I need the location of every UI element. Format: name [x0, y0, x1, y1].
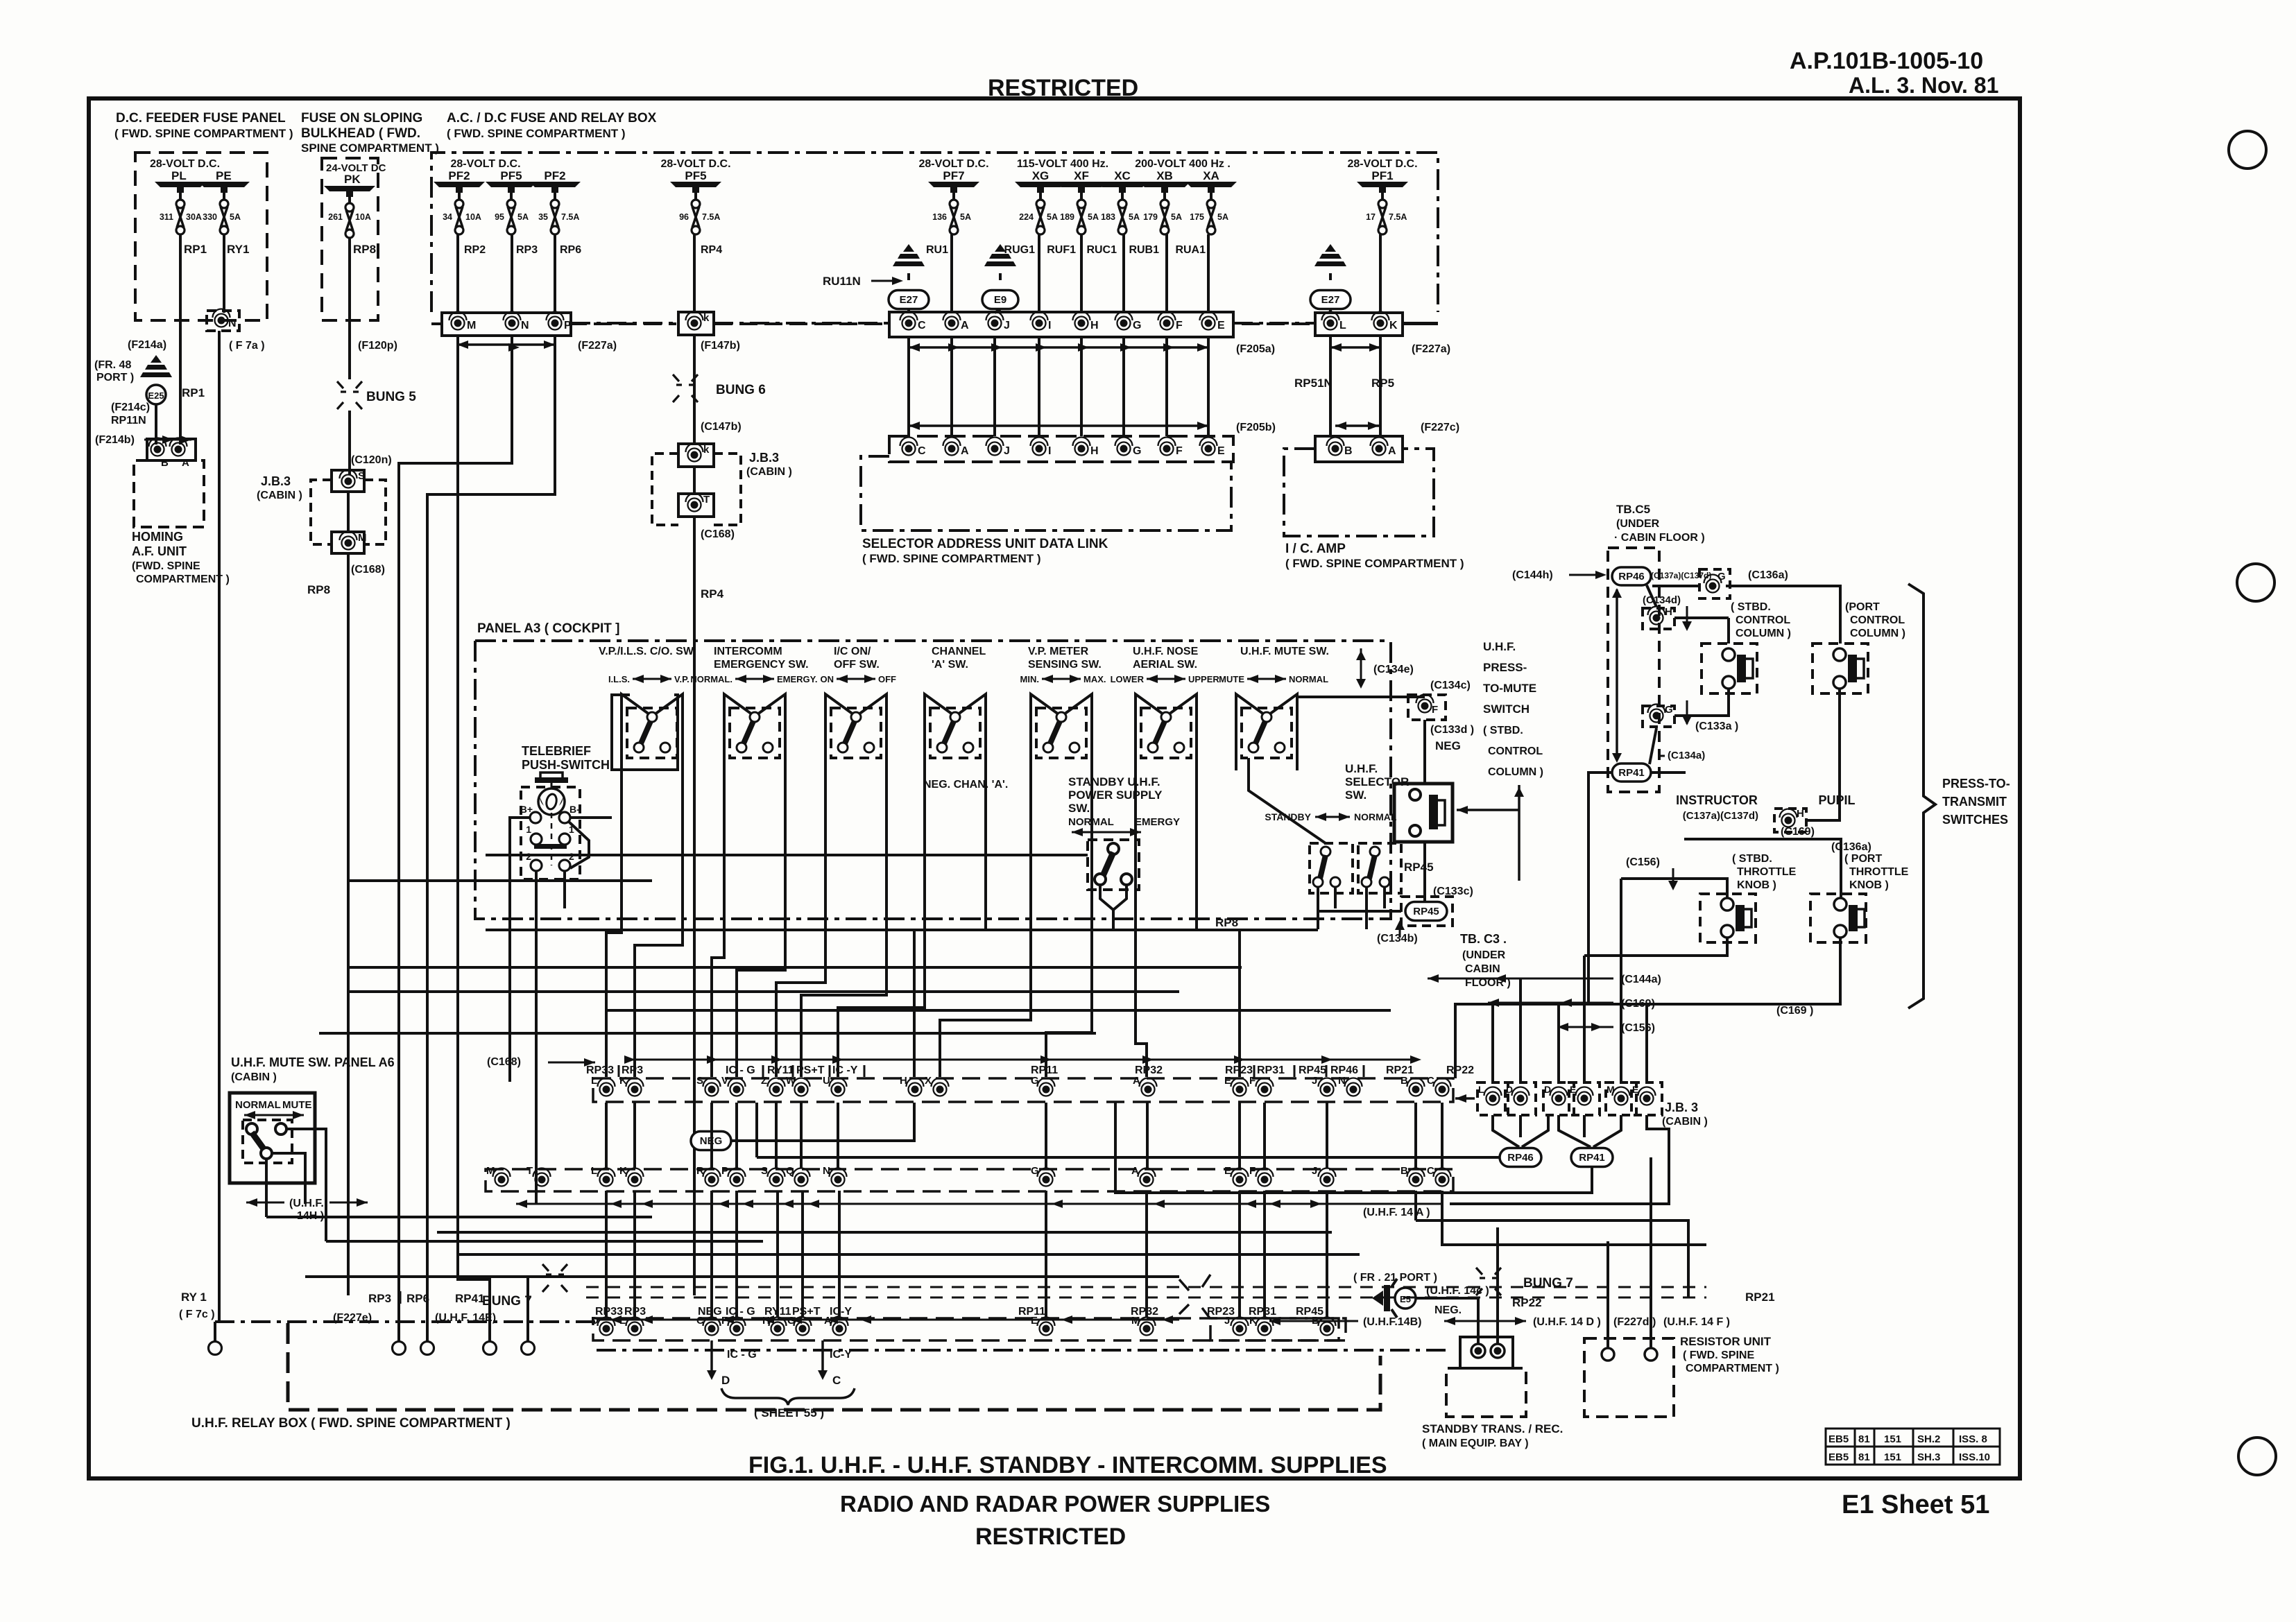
connector E jb3 box: [1569, 1082, 1600, 1115]
connector S rowB: [770, 1173, 783, 1187]
svg-text:NEG: NEG: [698, 1306, 722, 1318]
arrow mute: [244, 1114, 304, 1116]
svg-text:E: E: [1570, 1084, 1576, 1095]
wire P down: [427, 335, 555, 1342]
wire H down: [1080, 337, 1083, 436]
svg-text:RP41: RP41: [1579, 1152, 1605, 1164]
connector K rowB: [628, 1173, 642, 1187]
svg-text:H: H: [1090, 445, 1099, 457]
busbar PE: [198, 182, 250, 187]
svg-text:A.L. 3. Nov. 81: A.L. 3. Nov. 81: [1849, 73, 1998, 98]
svg-text:G: G: [1133, 320, 1141, 331]
connector C row2: [902, 442, 916, 456]
svg-text:E27: E27: [1321, 294, 1340, 306]
svg-text:PF5: PF5: [500, 169, 522, 182]
svg-text:311: 311: [160, 212, 173, 222]
wire switch drop: [801, 770, 886, 1077]
wire dashdot under rowC: [597, 1349, 1446, 1352]
svg-text:EMERGY: EMERGY: [1135, 816, 1180, 828]
connector N row1: [506, 317, 519, 330]
svg-text:EMERGY.: EMERGY.: [777, 674, 818, 684]
svg-text:( MAIN EQUIP. BAY ): ( MAIN EQUIP. BAY ): [1422, 1438, 1529, 1449]
connector F row1: [1160, 317, 1174, 330]
switch uhf selector A: [1310, 843, 1353, 893]
connector k2 box: [678, 444, 714, 467]
connector N box: [207, 311, 239, 331]
wire rp45 left: [1318, 910, 1401, 913]
svg-text:PF2: PF2: [448, 169, 470, 182]
wire rowA-rowB: [1238, 1103, 1241, 1168]
connector J row2: [988, 442, 1002, 456]
svg-text:5A: 5A: [1129, 212, 1140, 222]
svg-text:( STBD.: ( STBD.: [1732, 853, 1772, 865]
svg-text:RP8: RP8: [1215, 916, 1238, 929]
fuse PK 10A: [345, 203, 354, 212]
connector Z rowA: [770, 1083, 783, 1096]
wire rowB-rowC: [735, 1191, 738, 1318]
wire E27b-L: [1329, 309, 1332, 313]
svg-text:B: B: [1400, 1075, 1408, 1087]
svg-text:L: L: [591, 1165, 597, 1177]
svg-text:TO-MUTE: TO-MUTE: [1483, 682, 1536, 695]
svg-text:PF7: PF7: [943, 169, 964, 182]
arrowhead: [991, 343, 1002, 352]
connector I row2: [1033, 442, 1046, 456]
svg-text:NORMAL: NORMAL: [235, 1099, 281, 1111]
svg-text:(U.H.F. 14 A ): (U.H.F. 14 A ): [1363, 1207, 1430, 1218]
wire rowB-rowC: [710, 1191, 713, 1318]
connector H mid box: [1643, 608, 1674, 629]
connector H bot box: [1774, 809, 1806, 832]
telebrief dome: [538, 788, 565, 815]
svg-text:Z: Z: [761, 1075, 767, 1087]
rowC right box: [1210, 1318, 1346, 1340]
svg-text:XB: XB: [1156, 169, 1173, 182]
svg-text:(F214b): (F214b): [95, 434, 135, 446]
svg-text:I.L.S.: I.L.S.: [608, 674, 630, 684]
busbar XF: [1056, 182, 1107, 187]
svg-text:179: 179: [1143, 212, 1158, 222]
svg-text:330: 330: [203, 212, 217, 222]
connector L rowA: [600, 1083, 613, 1096]
sheet55 brace: [721, 1388, 855, 1405]
connector M box: [332, 532, 364, 553]
wire rowA-rowB: [1146, 1103, 1149, 1168]
press-to-transmit bracket: [1908, 584, 1935, 1008]
svg-text:5A: 5A: [230, 212, 241, 222]
svg-text:SH.2: SH.2: [1917, 1433, 1940, 1445]
svg-text:POWER SUPPLY: POWER SUPPLY: [1068, 788, 1163, 802]
svg-text:A: A: [961, 445, 969, 457]
wire C down: [907, 337, 910, 436]
svg-text:C: C: [1427, 1075, 1434, 1087]
svg-text:(U.H.F. 14 F ): (U.H.F. 14 F ): [1663, 1316, 1730, 1328]
svg-text:CONTROL: CONTROL: [1488, 745, 1543, 757]
svg-text:189: 189: [1060, 212, 1074, 222]
svg-text:RUC1: RUC1: [1086, 244, 1117, 256]
wire rowB-rowC: [1045, 1191, 1047, 1318]
wire PL-RP1: [179, 193, 182, 200]
svg-text:H: H: [1090, 320, 1099, 331]
svg-text:( SHEET 55 ): ( SHEET 55 ): [754, 1406, 824, 1420]
svg-text:V.P. METER: V.P. METER: [1028, 646, 1089, 657]
svg-text:E25: E25: [148, 390, 164, 401]
wire switch drop: [838, 770, 925, 1077]
connector M rowB: [495, 1173, 508, 1187]
oval RP41 tbc5: [1612, 763, 1651, 782]
svg-text:k: k: [703, 312, 710, 324]
ground E27b: [1325, 244, 1336, 252]
svg-text:SWITCHES: SWITCHES: [1942, 813, 2008, 827]
svg-text:G: G: [1031, 1165, 1039, 1177]
telebrief contacts: [530, 812, 541, 823]
svg-text:RP32: RP32: [1131, 1306, 1158, 1318]
connector E rowA: [1233, 1083, 1246, 1096]
telebrief wires out: [510, 818, 530, 1082]
svg-text:(U.H.F.14B): (U.H.F.14B): [1363, 1316, 1421, 1328]
svg-text:B: B: [1400, 1165, 1408, 1177]
connector K rowC: [1258, 1322, 1271, 1336]
svg-text:PS+T: PS+T: [792, 1306, 821, 1318]
svg-text:28-VOLT D.C.: 28-VOLT D.C.: [450, 158, 520, 170]
wire h1270: [348, 879, 652, 882]
wire XC-G: [1121, 193, 1124, 200]
ground RU11N: [903, 244, 914, 252]
svg-text:5A: 5A: [1047, 212, 1058, 222]
svg-text:RUB1: RUB1: [1129, 244, 1159, 256]
svg-text:COLUMN ): COLUMN ): [1850, 628, 1905, 639]
wire F down: [1423, 720, 1426, 784]
svg-text:KNOB ): KNOB ): [1737, 879, 1776, 891]
oval RP41 jb3: [1571, 1148, 1613, 1167]
svg-text:PF2: PF2: [544, 169, 565, 182]
svg-text:E: E: [1224, 1075, 1231, 1087]
telebrief box: [521, 787, 580, 879]
svg-text:( FWD. SPINE: ( FWD. SPINE: [1683, 1349, 1754, 1361]
svg-text:RP6: RP6: [406, 1292, 429, 1305]
svg-text:IC-Y: IC-Y: [830, 1306, 852, 1318]
svg-text:(C137a)(C137d): (C137a)(C137d): [1651, 571, 1711, 580]
svg-text:(C134c): (C134c): [1430, 680, 1471, 691]
svg-text:IC -Y: IC -Y: [832, 1064, 858, 1076]
svg-text:COMPARTMENT ): COMPARTMENT ): [1686, 1363, 1779, 1374]
connector B rowB: [1410, 1173, 1423, 1187]
svg-text:S: S: [358, 470, 365, 482]
switch V.P. METER: [1036, 708, 1086, 758]
svg-text:UPPER: UPPER: [1188, 674, 1219, 684]
arrowhead: [1078, 343, 1089, 352]
svg-text:XA: XA: [1203, 169, 1219, 182]
connector J rowC: [1233, 1322, 1246, 1336]
svg-text:E: E: [1224, 1165, 1231, 1177]
connector C rowC: [705, 1322, 719, 1336]
wire switch drop: [635, 770, 683, 1077]
svg-text:96: 96: [679, 212, 689, 222]
connector E rowB: [1233, 1173, 1246, 1187]
svg-text:'A' SW.: 'A' SW.: [932, 659, 968, 671]
svg-text:TRANSMIT: TRANSMIT: [1942, 795, 2007, 809]
svg-text:H: H: [1665, 606, 1672, 618]
wire rowA-rowB: [605, 1103, 608, 1168]
wire PE-RY1: [223, 193, 225, 200]
wire XA-E: [1210, 193, 1213, 200]
svg-text:A.F. UNIT: A.F. UNIT: [132, 544, 187, 558]
svg-text:PK: PK: [344, 173, 361, 186]
TB.C5 box: [1608, 548, 1659, 792]
panel A3 box: [475, 639, 1391, 642]
svg-text:XC: XC: [1114, 169, 1131, 182]
svg-text:(FR. 48: (FR. 48: [94, 359, 131, 371]
svg-text:PANEL A3 ( COCKPIT ]: PANEL A3 ( COCKPIT ]: [477, 621, 620, 636]
svg-text:RP45: RP45: [1404, 861, 1434, 874]
fuse XC 5A: [1118, 200, 1126, 208]
wire E right jb3: [1450, 1115, 1669, 1204]
wire L-B: [1329, 337, 1332, 436]
punch hole: [2229, 131, 2266, 169]
svg-text:(C169 ): (C169 ): [1776, 1005, 1813, 1017]
svg-text:(C136a): (C136a): [1831, 841, 1871, 853]
box A.C./D.C fuse and relay box: [431, 153, 1438, 312]
svg-text:V.P.: V.P.: [674, 674, 689, 684]
screen dash line 2: [586, 1297, 1706, 1299]
svg-text:(F120p): (F120p): [358, 340, 397, 352]
connector F rowA: [1258, 1083, 1271, 1096]
connector A row2: [1373, 442, 1386, 456]
connector V rowA: [730, 1083, 744, 1096]
svg-text:OFF SW.: OFF SW.: [834, 659, 880, 671]
label (F227a) right: [1330, 346, 1380, 349]
svg-text:28-VOLT D.C.: 28-VOLT D.C.: [1347, 158, 1417, 170]
connector row2 box: [889, 436, 1233, 462]
svg-text:N: N: [823, 1165, 830, 1177]
switch V.P./I.L.S. C/O. SW: [627, 708, 677, 758]
label (F205b): [909, 424, 1208, 427]
wire stbd bottom loop: [1674, 689, 1729, 716]
wire rowB-rowC: [605, 1191, 608, 1318]
connector C row1: [902, 317, 916, 330]
switch CHANNEL: [930, 708, 980, 758]
connector F box: [1408, 695, 1446, 720]
svg-text:THROTTLE: THROTTLE: [1737, 866, 1797, 878]
svg-text:W: W: [786, 1075, 796, 1087]
connector A rowC: [833, 1322, 846, 1336]
svg-text:N: N: [228, 318, 237, 329]
wire L down: [1329, 336, 1332, 436]
connector G rowA: [1040, 1083, 1053, 1096]
jb3 outline 2: [652, 454, 678, 525]
connector E rowC: [1040, 1322, 1053, 1336]
label (F205a): [909, 346, 1208, 349]
wire PF5-k: [694, 193, 697, 200]
fuse PF1 7.5A: [1378, 200, 1387, 208]
svg-text:(C169): (C169): [1781, 826, 1815, 838]
svg-text:M: M: [358, 532, 367, 544]
svg-text:261: 261: [328, 212, 343, 222]
svg-text:SW.: SW.: [1345, 788, 1367, 802]
stbd control column box: [1702, 644, 1757, 693]
svg-text:RP46: RP46: [1618, 571, 1645, 583]
mute switch: [243, 1120, 292, 1163]
resistor terminals: [1602, 1348, 1614, 1361]
connector E jb3 box: [1631, 1082, 1662, 1115]
connector G rowB: [1040, 1173, 1053, 1187]
fuse PL 30A: [176, 200, 185, 208]
svg-text:81: 81: [1858, 1451, 1870, 1463]
svg-text:FLOOR ): FLOOR ): [1465, 977, 1511, 989]
wire port throttle top: [1684, 839, 1841, 899]
svg-text:C: C: [918, 320, 926, 331]
svg-text:N: N: [1338, 1075, 1346, 1087]
connector S rowA: [705, 1083, 719, 1096]
connector N rowB: [832, 1173, 845, 1187]
svg-text:(CABIN ): (CABIN ): [257, 490, 302, 501]
uhf relay box outline: [288, 1323, 1380, 1410]
fuse PF2 7.5A: [551, 200, 559, 208]
svg-text:NEG.: NEG.: [1434, 1304, 1462, 1316]
svg-text:SWITCH: SWITCH: [1483, 702, 1530, 716]
connector P row1: [549, 317, 562, 330]
wire stbd throttle top: [1621, 879, 1727, 899]
wire E25 down: [155, 404, 157, 445]
connector k box: [678, 312, 714, 335]
wire h1233: [486, 854, 1088, 856]
oval NEG: [691, 1132, 731, 1150]
wire rowA-C to sixb: [1455, 1097, 1475, 1100]
svg-text:1: 1: [526, 824, 531, 835]
svg-text:NORMAL: NORMAL: [1289, 674, 1328, 684]
terminal E25: [146, 385, 166, 404]
svg-text:LOWER: LOWER: [1111, 674, 1145, 684]
svg-text:COLUMN ): COLUMN ): [1736, 628, 1791, 639]
wire switch drop: [606, 770, 622, 1077]
punch hole: [2237, 564, 2274, 601]
svg-text:L: L: [1339, 320, 1346, 331]
svg-text:RP3: RP3: [516, 244, 538, 256]
svg-text:TB.C5: TB.C5: [1616, 503, 1650, 516]
svg-text:MIN.: MIN.: [1020, 674, 1039, 684]
busbar PF7: [928, 182, 979, 187]
strip rowA box: [593, 1078, 1453, 1102]
svg-text:RU1: RU1: [926, 244, 948, 256]
svg-text:STANDBY TRANS. / REC.: STANDBY TRANS. / REC.: [1422, 1422, 1563, 1435]
svg-text:V.P./I.L.S. C/O. SW.: V.P./I.L.S. C/O. SW.: [599, 646, 696, 657]
svg-text:A: A: [182, 457, 189, 469]
wire stbd throttle bot: [1584, 938, 1727, 956]
arrow standby: [1072, 831, 1141, 834]
svg-text:G: G: [1133, 445, 1141, 457]
wire I down: [1038, 337, 1040, 436]
svg-text:J: J: [1312, 1075, 1317, 1087]
svg-text:(C168): (C168): [701, 528, 735, 540]
svg-text:SELECTOR ADDRESS UNIT DATA: SELECTOR ADDRESS UNIT DATA LINK: [862, 537, 1108, 551]
switch U.H.F. NOSE: [1141, 708, 1191, 758]
oval RP46 tbc5: [1612, 567, 1651, 585]
svg-text:(C137a)(C137d): (C137a)(C137d): [1683, 810, 1758, 822]
box bottom dashes: [431, 322, 443, 325]
svg-text:PRESS-TO-: PRESS-TO-: [1942, 777, 2010, 791]
svg-text:I: I: [1048, 445, 1051, 457]
selector address box: [861, 456, 1231, 530]
svg-text:J.B. 3: J.B. 3: [1665, 1101, 1698, 1114]
svg-text:G: G: [1717, 571, 1726, 583]
svg-text:(C156): (C156): [1626, 856, 1660, 868]
svg-text:115-VOLT 400 Hz.: 115-VOLT 400 Hz.: [1017, 158, 1108, 170]
wire RP41 left: [1588, 773, 1612, 1004]
wire XB-F: [1163, 193, 1166, 200]
wire RP41 diag G: [1650, 728, 1656, 764]
svg-text:(F214a): (F214a): [128, 339, 166, 351]
wire ptm down RP45: [1423, 842, 1426, 901]
ground E25: [151, 355, 162, 363]
svg-text:( FWD. SPINE COMPARTMENT ): ( FWD. SPINE COMPARTMENT ): [114, 127, 293, 140]
wire J down: [993, 337, 996, 436]
svg-text:35: 35: [538, 212, 548, 222]
svg-text:(C133a ): (C133a ): [1695, 721, 1738, 732]
busbar PL: [155, 182, 206, 187]
wire port throttle bot: [1455, 938, 1840, 1078]
wire E5 to RP22: [1416, 1297, 1478, 1300]
connector A rowA: [1142, 1083, 1155, 1096]
connector C rowA: [1436, 1083, 1449, 1096]
wire tbc5 vert: [1616, 589, 1618, 759]
svg-text:RP3: RP3: [368, 1292, 391, 1305]
svg-text:( FWD. SPINE COMPARTMENT ): ( FWD. SPINE COMPARTMENT ): [447, 127, 626, 140]
svg-text:ON: ON: [821, 674, 834, 684]
busbar PK: [324, 186, 375, 191]
svg-text:RY 1: RY 1: [181, 1291, 207, 1304]
wire switch drop: [1197, 770, 1240, 1077]
svg-text:28-VOLT D.C.: 28-VOLT D.C.: [150, 158, 220, 170]
connector B rowA: [1410, 1083, 1423, 1096]
wire port bottom loop: [1806, 689, 1840, 820]
screen dash line 1: [586, 1286, 1706, 1288]
svg-text:INTERCOMM: INTERCOMM: [714, 646, 782, 657]
wire sixb ups: [1491, 1004, 1494, 1082]
connector G row1: [1117, 317, 1131, 330]
svg-text:RP23: RP23: [1207, 1306, 1235, 1318]
wire switch drop: [1046, 770, 1092, 1077]
bung 6: [673, 374, 698, 385]
connector K row1: [1374, 317, 1387, 330]
svg-text:FUSE ON SLOPING: FUSE ON SLOPING: [301, 111, 422, 126]
wire G top to port: [1652, 585, 1699, 587]
bung 7 left: [542, 1264, 567, 1275]
svg-text:PE: PE: [216, 169, 232, 182]
wire rowA-rowB: [775, 1103, 778, 1168]
terminal RY1 end: [209, 1342, 222, 1355]
fuse PF5 7.5A: [692, 200, 700, 208]
svg-text:RP11N: RP11N: [111, 415, 146, 426]
wire rowA-rowB: [1326, 1103, 1328, 1168]
wire rowA-rowB: [1263, 1103, 1266, 1168]
svg-text:(CABIN ): (CABIN ): [231, 1071, 277, 1083]
mute wires down: [265, 1179, 268, 1217]
connector N rowA: [1347, 1083, 1360, 1096]
svg-text:7.5A: 7.5A: [561, 212, 579, 222]
svg-text:F: F: [1176, 445, 1183, 457]
connector G row2: [1117, 442, 1131, 456]
svg-text:INSTRUCTOR: INSTRUCTOR: [1676, 793, 1758, 807]
wire c134e: [1296, 696, 1425, 698]
svg-text:34: 34: [443, 212, 452, 222]
wire RP41 down: [1115, 1103, 1592, 1193]
arrowhead: [1163, 343, 1174, 352]
connector L row1: [1324, 317, 1337, 330]
svg-text:K: K: [619, 1075, 627, 1087]
wire rowA-rowB: [710, 1103, 713, 1168]
svg-text:CHANNEL: CHANNEL: [932, 646, 986, 657]
svg-text:BULKHEAD ( FWD.: BULKHEAD ( FWD.: [301, 126, 420, 141]
